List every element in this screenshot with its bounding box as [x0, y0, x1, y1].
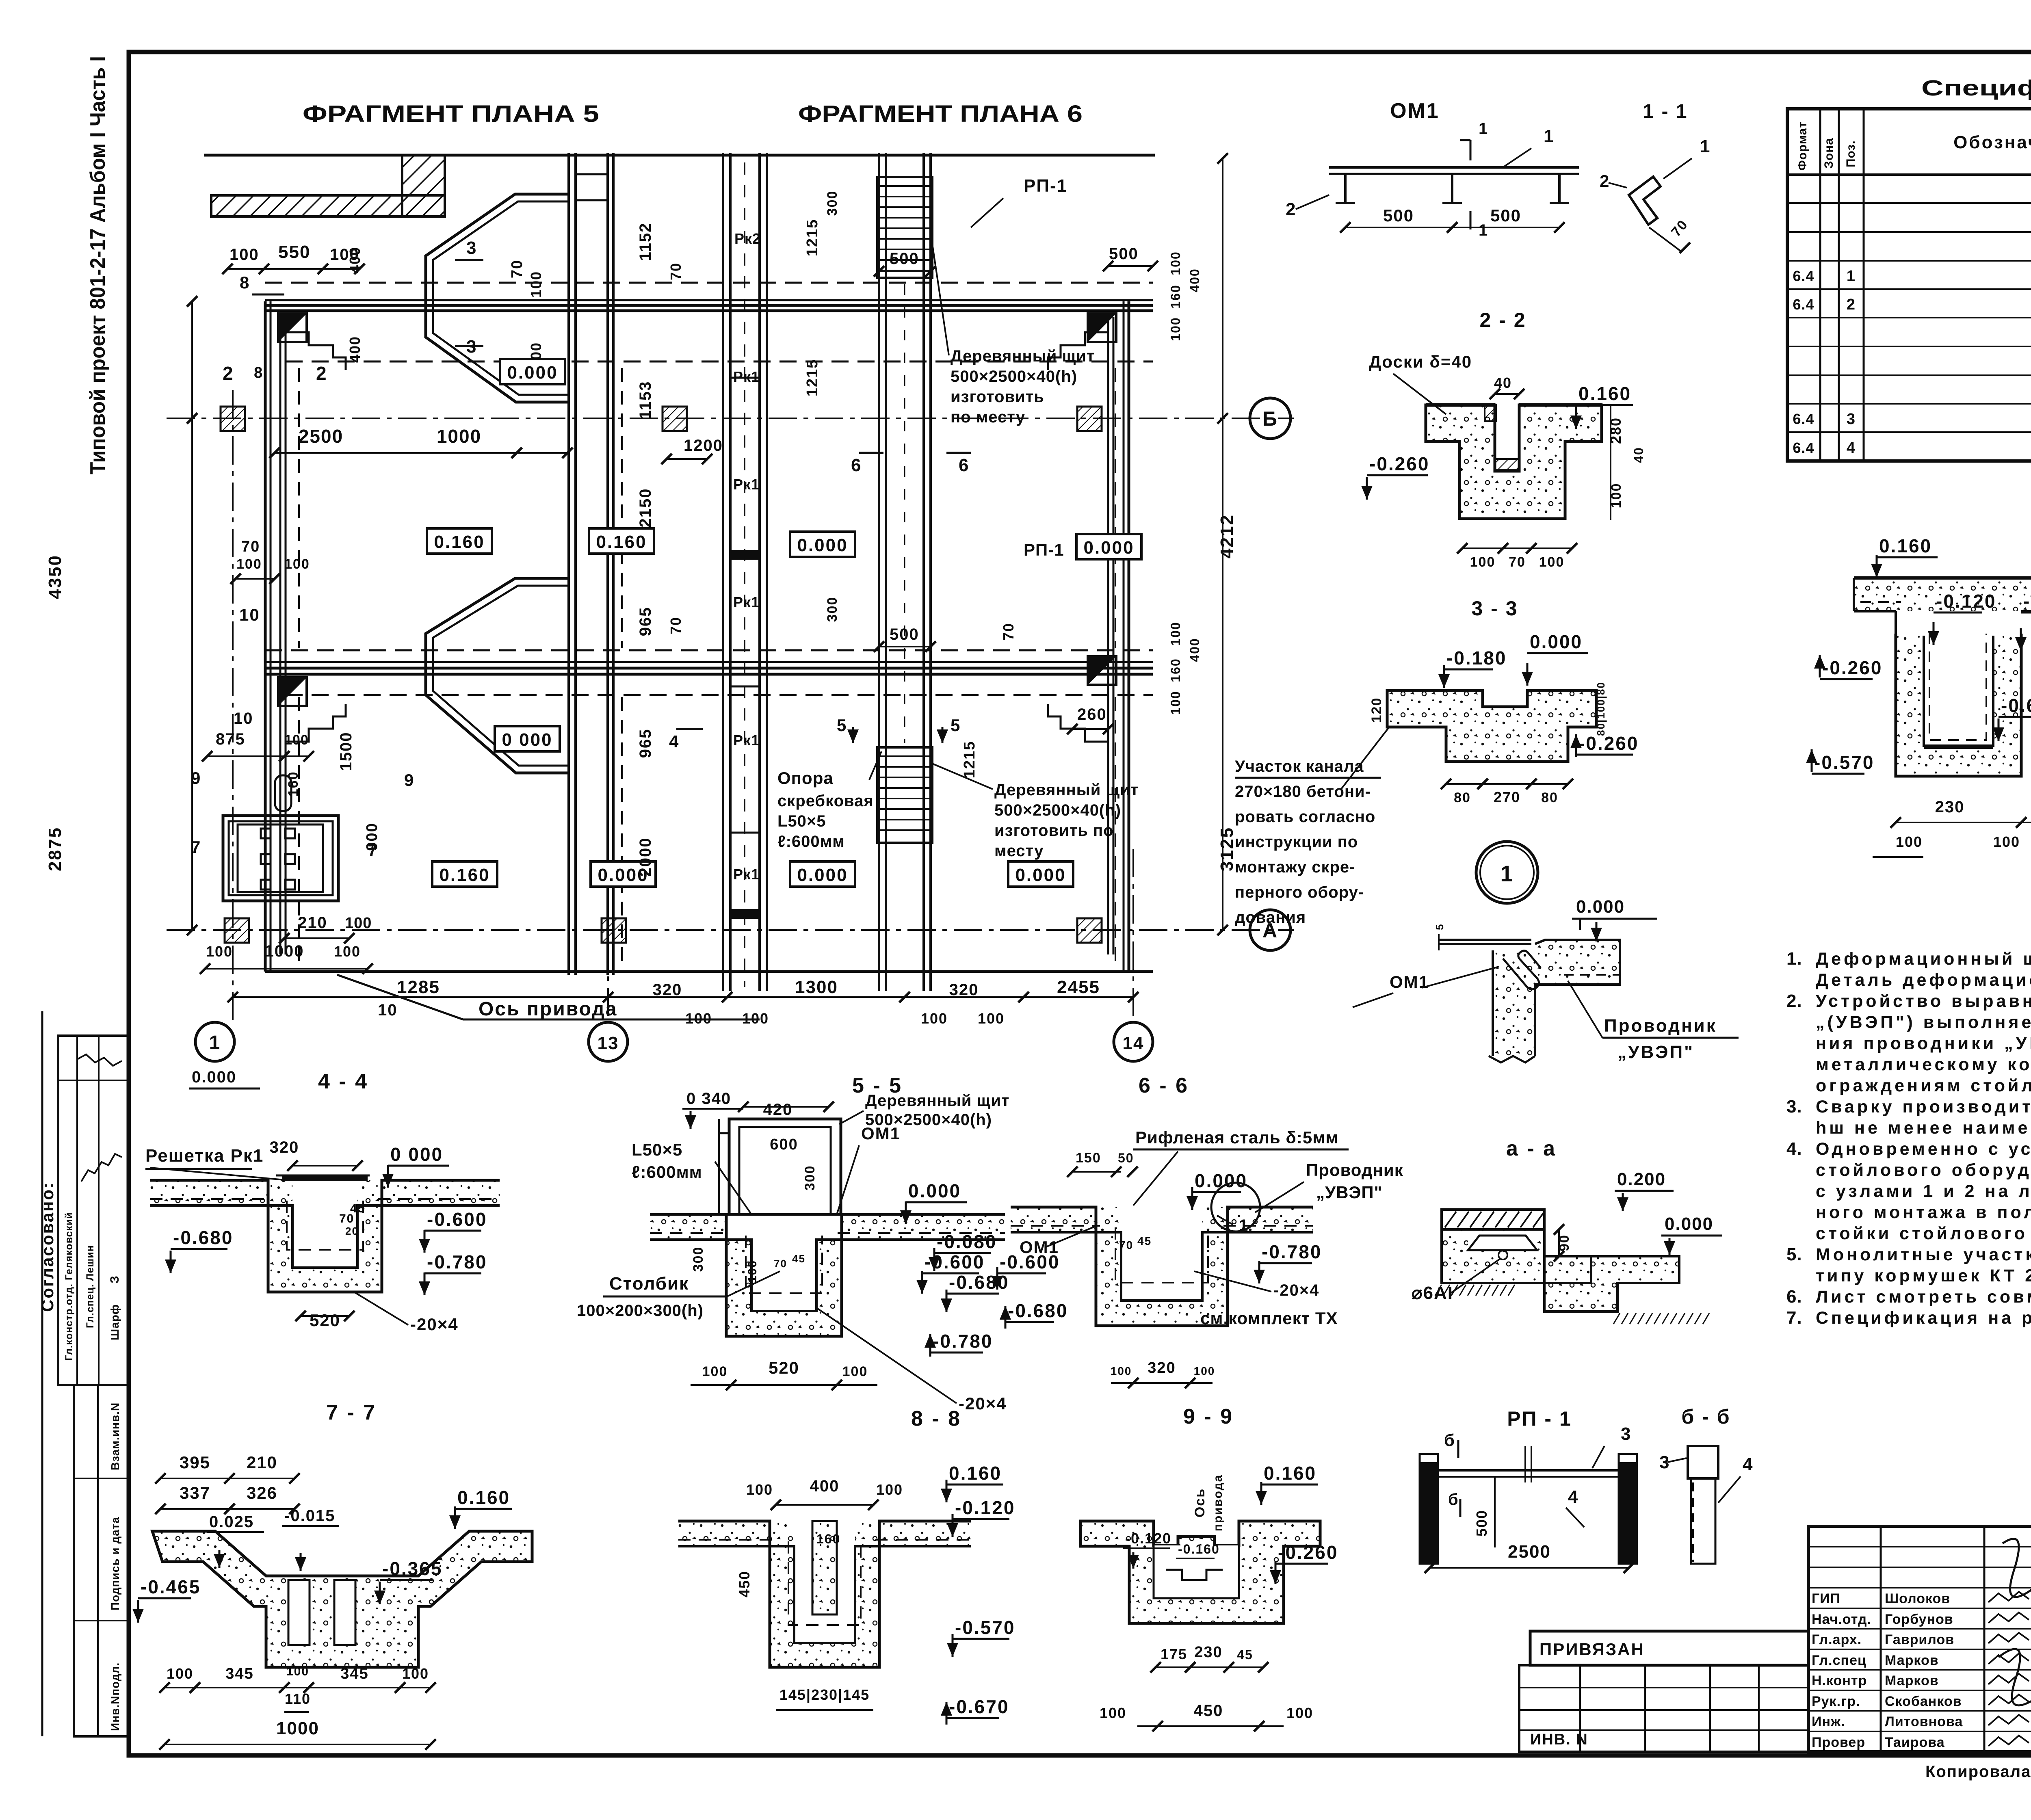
- svg-text:160: 160: [1168, 284, 1183, 308]
- svg-text:965: 965: [637, 729, 654, 758]
- svg-text:100: 100: [1168, 317, 1183, 341]
- svg-text:ФРАГМЕНТ ПЛАНА 5: ФРАГМЕНТ ПЛАНА 5: [303, 101, 599, 127]
- svg-text:0.000: 0.000: [507, 363, 558, 383]
- svg-text:-0.600: -0.600: [1000, 1251, 1060, 1272]
- svg-text:Доски δ=40: Доски δ=40: [1369, 352, 1472, 371]
- svg-text:13: 13: [598, 1033, 619, 1053]
- svg-text:6.: 6.: [1786, 1287, 1802, 1307]
- svg-text:б: б: [1444, 1430, 1455, 1450]
- svg-text:326: 326: [247, 1483, 277, 1502]
- svg-text:70: 70: [1000, 623, 1017, 641]
- svg-text:500: 500: [1383, 206, 1414, 225]
- svg-text:500: 500: [1109, 245, 1139, 263]
- svg-text:Поз.: Поз.: [1844, 140, 1858, 167]
- svg-text:инструкции по: инструкции по: [1235, 833, 1358, 851]
- svg-text:РП - 1: РП - 1: [1507, 1407, 1572, 1430]
- svg-text:0.000: 0.000: [1530, 631, 1583, 652]
- svg-text:0.160: 0.160: [439, 865, 490, 885]
- svg-text:100: 100: [345, 915, 372, 932]
- svg-text:Опора: Опора: [777, 768, 834, 788]
- svg-text:Ось: Ось: [1192, 1488, 1208, 1517]
- svg-text:70: 70: [339, 1212, 354, 1225]
- svg-text:стойки стойлового оборудования: стойки стойлового оборудования.: [1816, 1224, 2031, 1243]
- svg-text:2: 2: [223, 363, 234, 384]
- svg-text:2: 2: [1286, 199, 1296, 219]
- svg-text:-0.160: -0.160: [2023, 591, 2031, 612]
- svg-text:0.160: 0.160: [434, 532, 485, 552]
- svg-text:6.4: 6.4: [1793, 268, 1814, 284]
- svg-text:Таирова: Таирова: [1885, 1735, 1945, 1750]
- svg-text:965: 965: [637, 607, 654, 636]
- svg-text:Инв.Nподл.: Инв.Nподл.: [109, 1662, 121, 1731]
- svg-text:0 000: 0 000: [390, 1144, 443, 1165]
- svg-text:-0.080: -0.080: [937, 1231, 997, 1252]
- svg-text:Обозначение: Обозначение: [1953, 132, 2031, 152]
- svg-text:100: 100: [334, 943, 361, 960]
- svg-text:8: 8: [240, 273, 250, 292]
- svg-text:0.000: 0.000: [1015, 865, 1066, 885]
- svg-text:Участок канала: Участок канала: [1235, 757, 1364, 775]
- svg-text:500: 500: [890, 250, 919, 268]
- svg-text:8 - 8: 8 - 8: [911, 1407, 961, 1430]
- svg-text:400: 400: [1187, 268, 1202, 292]
- svg-text:100: 100: [230, 246, 259, 264]
- svg-text:10: 10: [234, 710, 253, 727]
- svg-text:Рк1: Рк1: [733, 368, 760, 385]
- svg-text:4212: 4212: [1217, 514, 1237, 558]
- svg-text:6.4: 6.4: [1793, 439, 1814, 456]
- svg-text:Зона: Зона: [1822, 138, 1836, 169]
- svg-text:Рк1: Рк1: [733, 476, 760, 493]
- svg-text:ℓ:600мм: ℓ:600мм: [777, 833, 845, 850]
- svg-text:4350: 4350: [45, 554, 65, 599]
- svg-text:600: 600: [770, 1136, 798, 1153]
- svg-text:100: 100: [1168, 251, 1183, 275]
- svg-text:Рк2: Рк2: [734, 230, 761, 247]
- svg-text:100: 100: [528, 271, 544, 298]
- svg-text:500×2500×40(h): 500×2500×40(h): [951, 368, 1077, 385]
- svg-text:2: 2: [316, 363, 327, 384]
- svg-text:100: 100: [1100, 1705, 1126, 1721]
- svg-text:-0.180: -0.180: [1446, 647, 1507, 669]
- svg-text:2150: 2150: [637, 488, 654, 528]
- svg-text:320: 320: [653, 981, 682, 999]
- svg-text:с узлами 1 и 2 на листе АР-6.: с узлами 1 и 2 на листе АР-6. В случае н…: [1816, 1182, 2031, 1201]
- svg-text:5: 5: [1433, 924, 1446, 930]
- svg-text:500: 500: [1473, 1510, 1490, 1537]
- svg-text:2 - 2: 2 - 2: [1479, 309, 1526, 331]
- svg-text:7 - 7: 7 - 7: [326, 1401, 377, 1424]
- svg-text:ОМ1: ОМ1: [1390, 972, 1429, 991]
- svg-text:1215: 1215: [961, 741, 978, 779]
- svg-text:45: 45: [1137, 1235, 1152, 1247]
- svg-text:Рк1: Рк1: [733, 594, 760, 610]
- svg-text:100: 100: [1111, 1365, 1132, 1377]
- svg-text:175: 175: [1161, 1646, 1187, 1662]
- svg-text:0.000: 0.000: [1665, 1214, 1713, 1234]
- svg-text:395: 395: [180, 1453, 210, 1472]
- svg-text:100: 100: [746, 1260, 759, 1283]
- svg-text:100: 100: [978, 1010, 1005, 1027]
- svg-text:месту: месту: [994, 842, 1044, 860]
- svg-text:б: б: [1448, 1491, 1459, 1508]
- svg-text:10: 10: [378, 1001, 398, 1019]
- svg-text:450: 450: [736, 1571, 753, 1597]
- svg-text:Гл.спец: Гл.спец: [1812, 1653, 1866, 1668]
- svg-text:1: 1: [1700, 136, 1711, 156]
- svg-text:1: 1: [1544, 126, 1554, 146]
- svg-text:0 340: 0 340: [686, 1090, 731, 1108]
- svg-text:345: 345: [340, 1665, 368, 1682]
- svg-text:3.: 3.: [1786, 1097, 1802, 1117]
- svg-text:2500: 2500: [299, 426, 343, 447]
- svg-text:-0.600: -0.600: [925, 1251, 985, 1272]
- svg-text:1: 1: [1479, 221, 1488, 239]
- svg-text:Деформационный шов в полу выпо: Деформационный шов в полу выполнять с ша…: [1816, 949, 2031, 969]
- svg-text:Проводник: Проводник: [1604, 1016, 1717, 1036]
- svg-text:70: 70: [1509, 554, 1526, 570]
- svg-text:1: 1: [209, 1032, 221, 1054]
- svg-text:ФРАГМЕНТ ПЛАНА 6: ФРАГМЕНТ ПЛАНА 6: [798, 101, 1083, 127]
- svg-text:160: 160: [816, 1532, 840, 1546]
- svg-text:6: 6: [851, 455, 862, 475]
- svg-text:100×200×300(h): 100×200×300(h): [577, 1302, 704, 1320]
- svg-text:-0.780: -0.780: [933, 1331, 993, 1352]
- svg-text:6.4: 6.4: [1793, 296, 1814, 313]
- svg-text:металлическому корыту транспот: металлическому корыту транспотера , к ме…: [1816, 1055, 2031, 1074]
- svg-text:Гл.спец. Лешин: Гл.спец. Лешин: [84, 1245, 96, 1328]
- svg-text:„УВЭП": „УВЭП": [1316, 1183, 1382, 1202]
- svg-text:70: 70: [667, 617, 684, 634]
- svg-text:ного монтажа в полах предусмот: ного монтажа в полах предусмотреть гнезд…: [1816, 1203, 2031, 1222]
- svg-text:Лист смотреть совместно с лист: Лист смотреть совместно с листом АР-6.: [1816, 1287, 2031, 1307]
- svg-text:100: 100: [1539, 554, 1565, 570]
- svg-text:Гаврилов: Гаврилов: [1885, 1632, 1954, 1647]
- svg-text:300: 300: [802, 1165, 818, 1191]
- svg-text:550: 550: [278, 242, 310, 262]
- svg-text:Деталь деформационного шва дан: Деталь деформационного шва дана на листе…: [1816, 970, 2031, 990]
- svg-text:1000: 1000: [265, 942, 304, 960]
- svg-text:-0.260: -0.260: [1278, 1542, 1338, 1563]
- svg-text:типу кормушек КТ 278.70.57: типу кормушек КТ 278.70.57: [1816, 1266, 2031, 1285]
- svg-text:145|230|145: 145|230|145: [779, 1686, 870, 1703]
- svg-text:100: 100: [286, 1665, 309, 1678]
- svg-text:100: 100: [921, 1010, 948, 1027]
- svg-text:100: 100: [702, 1364, 728, 1379]
- svg-text:0.025: 0.025: [209, 1513, 254, 1531]
- svg-text:стойлового оборудования по лис: стойлового оборудования по листам ТХ и в…: [1816, 1160, 2031, 1180]
- svg-text:5.: 5.: [1786, 1244, 1802, 1264]
- svg-text:1215: 1215: [804, 359, 821, 397]
- svg-text:3: 3: [466, 238, 477, 258]
- svg-text:80|100|80: 80|100|80: [1595, 682, 1607, 736]
- svg-text:Сварку производить электродами: Сварку производить электродами Э-42 ГОСТ…: [1816, 1097, 2031, 1117]
- svg-text:L50×5: L50×5: [632, 1140, 682, 1159]
- svg-text:210: 210: [247, 1453, 277, 1472]
- svg-text:-0.600: -0.600: [427, 1209, 487, 1230]
- svg-text:Провер: Провер: [1812, 1735, 1865, 1750]
- svg-text:70: 70: [509, 260, 526, 278]
- svg-text:Копировала: Копировала: [1925, 1763, 2031, 1781]
- svg-text:-20×4: -20×4: [959, 1394, 1007, 1413]
- svg-text:100: 100: [236, 556, 262, 572]
- svg-text:6.4: 6.4: [1793, 411, 1814, 427]
- svg-text:Нач.отд.: Нач.отд.: [1812, 1612, 1871, 1627]
- svg-text:9 - 9: 9 - 9: [1183, 1405, 1234, 1428]
- svg-text:-0.260: -0.260: [1578, 733, 1639, 754]
- svg-text:З: З: [108, 1275, 121, 1283]
- svg-text:Спецификация стали на одну мар: Спецификация стали на одну марку: [1921, 76, 2031, 100]
- svg-text:500×2500×40(h): 500×2500×40(h): [865, 1111, 992, 1129]
- svg-text:ровать согласно: ровать согласно: [1235, 808, 1375, 826]
- svg-text:100: 100: [206, 943, 233, 960]
- svg-text:Деревянный щит: Деревянный щит: [865, 1092, 1009, 1110]
- svg-text:100: 100: [1168, 690, 1183, 714]
- svg-text:5: 5: [837, 716, 847, 735]
- svg-text:500: 500: [1490, 206, 1521, 225]
- svg-text:-20×4: -20×4: [410, 1315, 459, 1334]
- svg-text:3125: 3125: [1217, 827, 1237, 871]
- svg-text:монтажу скре-: монтажу скре-: [1235, 858, 1355, 876]
- svg-text:Рк1: Рк1: [733, 866, 760, 883]
- svg-text:ГИП: ГИП: [1812, 1591, 1840, 1606]
- svg-text:Н.контр: Н.контр: [1812, 1673, 1867, 1688]
- svg-text:2: 2: [1847, 296, 1856, 313]
- svg-text:2000: 2000: [637, 838, 654, 877]
- svg-text:-0.670: -0.670: [949, 1696, 1009, 1717]
- svg-text:520: 520: [769, 1358, 799, 1377]
- svg-text:4 - 4: 4 - 4: [318, 1070, 368, 1093]
- svg-text:Типовой проект 801-2-17 Альб: Типовой проект 801-2-17 Альбом I Часть I: [86, 56, 110, 474]
- svg-text:100: 100: [167, 1665, 193, 1682]
- svg-text:Спецификация на решетки Рк1 и: Спецификация на решетки Рк1 и Рк2 дана н…: [1816, 1308, 2031, 1328]
- svg-text:70: 70: [667, 262, 684, 280]
- svg-text:РП-1: РП-1: [1024, 176, 1067, 196]
- svg-text:1200: 1200: [684, 437, 723, 454]
- svg-text:100: 100: [402, 1665, 429, 1682]
- svg-text:100: 100: [746, 1481, 773, 1498]
- svg-text:-0.120: -0.120: [1125, 1530, 1171, 1547]
- svg-text:0.000: 0.000: [908, 1180, 961, 1201]
- svg-text:0.160: 0.160: [1264, 1463, 1316, 1484]
- svg-text:1285: 1285: [397, 977, 440, 997]
- svg-text:500×2500×40(h): 500×2500×40(h): [994, 801, 1121, 819]
- svg-text:1: 1: [1239, 1216, 1249, 1234]
- svg-text:Формат: Формат: [1796, 121, 1809, 171]
- svg-text:270×180 бетони-: 270×180 бетони-: [1235, 783, 1371, 801]
- svg-text:4: 4: [1743, 1454, 1753, 1474]
- svg-text:4: 4: [669, 732, 679, 751]
- svg-text:ния проводники „УВЭП" соединяю: ния проводники „УВЭП" соединяются на сва…: [1816, 1034, 2031, 1053]
- svg-text:0.000: 0.000: [797, 535, 848, 555]
- svg-text:Шарф: Шарф: [108, 1304, 121, 1340]
- svg-text:-0.260: -0.260: [1369, 453, 1429, 474]
- svg-text:2: 2: [1600, 171, 1610, 190]
- svg-text:160: 160: [286, 771, 301, 797]
- svg-text:0.160: 0.160: [596, 532, 647, 552]
- svg-text:L50×5: L50×5: [777, 812, 826, 830]
- svg-text:-0.670: -0.670: [2001, 695, 2031, 716]
- svg-text:875: 875: [216, 730, 245, 748]
- svg-text:Деревянный щит: Деревянный щит: [994, 781, 1139, 799]
- svg-text:320: 320: [270, 1138, 299, 1156]
- svg-text:7.: 7.: [1786, 1308, 1802, 1328]
- svg-text:0.160: 0.160: [949, 1463, 1002, 1484]
- svg-text:Ось привода: Ось привода: [479, 998, 617, 1020]
- svg-text:400: 400: [810, 1477, 840, 1495]
- svg-text:Марков: Марков: [1885, 1653, 1939, 1668]
- svg-text:230: 230: [1194, 1644, 1222, 1661]
- svg-text:320: 320: [949, 981, 979, 999]
- svg-text:скребковая: скребковая: [777, 792, 874, 810]
- svg-text:см.комплект ТХ: см.комплект ТХ: [1200, 1309, 1338, 1328]
- svg-text:110: 110: [285, 1690, 311, 1707]
- svg-text:5: 5: [951, 716, 961, 735]
- svg-text:„УВЭП": „УВЭП": [1617, 1042, 1694, 1062]
- svg-text:100: 100: [1286, 1705, 1313, 1721]
- svg-text:3: 3: [1621, 1424, 1631, 1444]
- svg-text:Монолитные участки кормушек Ум: Монолитные участки кормушек Ум-1 выполни…: [1816, 1245, 2031, 1264]
- svg-text:Решетка Рк1: Решетка Рк1: [145, 1146, 264, 1166]
- svg-text:230: 230: [1935, 798, 1965, 816]
- svg-text:300: 300: [825, 597, 840, 622]
- svg-text:260: 260: [1077, 705, 1107, 723]
- svg-text:-0.570: -0.570: [955, 1617, 1015, 1638]
- svg-text:80: 80: [1541, 790, 1558, 805]
- svg-text:300: 300: [825, 190, 840, 216]
- svg-text:500: 500: [890, 625, 919, 643]
- svg-text:Марков: Марков: [1885, 1673, 1939, 1688]
- svg-text:0.160: 0.160: [457, 1487, 510, 1508]
- svg-text:150: 150: [1076, 1150, 1101, 1166]
- svg-text:9: 9: [404, 770, 414, 790]
- svg-text:100: 100: [1993, 833, 2020, 850]
- svg-text:1215: 1215: [804, 219, 821, 257]
- svg-text:0.160: 0.160: [1879, 535, 1932, 556]
- svg-text:Шолоков: Шолоков: [1885, 1591, 1950, 1606]
- svg-text:Гл.арх.: Гл.арх.: [1812, 1632, 1862, 1647]
- svg-text:7: 7: [368, 841, 378, 860]
- svg-text:14: 14: [1123, 1033, 1144, 1053]
- svg-text:hш не менее наименьшей толщины: hш не менее наименьшей толщины свариваем…: [1816, 1118, 2031, 1138]
- svg-text:Устройство выравнивания электр: Устройство выравнивания электрических по…: [1816, 991, 2031, 1011]
- svg-text:-0.680: -0.680: [1008, 1300, 1068, 1321]
- svg-text:-0.465: -0.465: [141, 1576, 201, 1597]
- svg-text:Гл.констр.отд. Геляковский: Гл.констр.отд. Геляковский: [63, 1212, 75, 1361]
- svg-text:по месту: по месту: [951, 408, 1025, 426]
- svg-text:изготовить: изготовить: [951, 388, 1044, 406]
- svg-text:100: 100: [1896, 833, 1923, 850]
- svg-text:1: 1: [1500, 861, 1514, 886]
- svg-text:450: 450: [1194, 1702, 1223, 1720]
- svg-text:ПРИВЯЗАН: ПРИВЯЗАН: [1539, 1640, 1645, 1659]
- svg-text:100: 100: [842, 1364, 868, 1379]
- svg-text:70: 70: [241, 538, 260, 555]
- svg-text:100: 100: [876, 1481, 903, 1498]
- svg-text:привода: привода: [1211, 1474, 1225, 1532]
- svg-text:160: 160: [1168, 658, 1183, 682]
- svg-text:ℓ:600мм: ℓ:600мм: [632, 1162, 702, 1182]
- svg-text:а - а: а - а: [1506, 1137, 1557, 1160]
- svg-text:2500: 2500: [1508, 1542, 1551, 1562]
- svg-text:50: 50: [1118, 1151, 1134, 1165]
- svg-text:2875: 2875: [45, 827, 65, 871]
- svg-text:1.: 1.: [1786, 949, 1802, 969]
- svg-text:2.: 2.: [1786, 991, 1802, 1011]
- svg-text:0 000: 0 000: [502, 730, 552, 750]
- svg-text:„(УВЭП") выполняется из армату: „(УВЭП") выполняется из арматуры ⌀6АI. П…: [1816, 1013, 2031, 1032]
- svg-text:-0.780: -0.780: [427, 1251, 487, 1272]
- svg-text:Согласовано:: Согласовано:: [38, 1182, 57, 1312]
- svg-text:⌀6АI: ⌀6АI: [1412, 1283, 1453, 1303]
- svg-text:6: 6: [959, 455, 969, 475]
- svg-text:1: 1: [1847, 268, 1856, 285]
- svg-text:1153: 1153: [637, 381, 654, 420]
- svg-text:ОМ1: ОМ1: [1390, 99, 1440, 123]
- svg-text:0.000: 0.000: [192, 1068, 236, 1086]
- svg-text:40: 40: [1494, 374, 1512, 391]
- svg-text:Горбунов: Горбунов: [1885, 1612, 1953, 1627]
- svg-text:4: 4: [1847, 439, 1856, 457]
- svg-text:20: 20: [345, 1225, 359, 1237]
- svg-text:-0.780: -0.780: [1262, 1241, 1322, 1262]
- svg-text:Рк1: Рк1: [733, 732, 760, 749]
- svg-text:100: 100: [1194, 1365, 1215, 1377]
- svg-text:1000: 1000: [276, 1718, 319, 1738]
- svg-text:2455: 2455: [1057, 977, 1100, 997]
- svg-text:Б: Б: [1262, 407, 1278, 430]
- svg-text:-0.015: -0.015: [284, 1507, 335, 1525]
- svg-text:-0.260: -0.260: [1822, 657, 1882, 678]
- svg-text:Одновременно с устройством пол: Одновременно с устройством полов произво…: [1816, 1139, 2031, 1159]
- svg-text:3 - 3: 3 - 3: [1471, 597, 1518, 620]
- svg-text:-0.120: -0.120: [955, 1497, 1015, 1518]
- svg-text:0.000: 0.000: [797, 865, 848, 885]
- svg-text:10: 10: [239, 605, 260, 624]
- svg-text:337: 337: [180, 1483, 210, 1502]
- svg-text:Деревянный щит: Деревянный щит: [951, 347, 1095, 365]
- svg-text:изготовить по: изготовить по: [994, 822, 1114, 840]
- svg-text:120: 120: [1369, 697, 1384, 723]
- svg-text:45: 45: [792, 1253, 805, 1265]
- svg-text:-0.365: -0.365: [382, 1558, 442, 1579]
- svg-text:б - б: б - б: [1681, 1405, 1730, 1428]
- svg-text:Взам.инв.N: Взам.инв.N: [109, 1402, 121, 1470]
- svg-text:345: 345: [225, 1665, 253, 1682]
- svg-text:ИНВ. N: ИНВ. N: [1530, 1731, 1588, 1748]
- svg-text:45: 45: [1237, 1647, 1253, 1662]
- svg-text:100: 100: [284, 732, 309, 748]
- svg-text:1000: 1000: [437, 426, 481, 447]
- svg-text:1: 1: [1479, 120, 1488, 138]
- svg-text:100: 100: [1168, 621, 1183, 645]
- svg-text:70: 70: [774, 1257, 787, 1270]
- svg-text:перного обору-: перного обору-: [1235, 883, 1364, 901]
- svg-text:1500: 1500: [337, 732, 355, 771]
- svg-text:РП-1: РП-1: [1024, 540, 1064, 559]
- svg-text:40: 40: [1631, 447, 1646, 463]
- svg-text:Рифленая сталь δ:5мм: Рифленая сталь δ:5мм: [1135, 1128, 1338, 1147]
- svg-text:520: 520: [310, 1311, 340, 1330]
- svg-text:3: 3: [1847, 411, 1856, 428]
- svg-text:80: 80: [1454, 790, 1471, 805]
- svg-text:ограждениям стойл и к трубопро: ограждениям стойл и к трубопроводам ВК.: [1816, 1076, 2031, 1095]
- svg-text:Литовнова: Литовнова: [1885, 1714, 1963, 1729]
- svg-text:Подпись и дата: Подпись и дата: [109, 1517, 121, 1610]
- svg-text:Столбик: Столбик: [609, 1274, 689, 1294]
- svg-text:Скобанков: Скобанков: [1885, 1694, 1962, 1709]
- svg-text:1300: 1300: [795, 977, 838, 997]
